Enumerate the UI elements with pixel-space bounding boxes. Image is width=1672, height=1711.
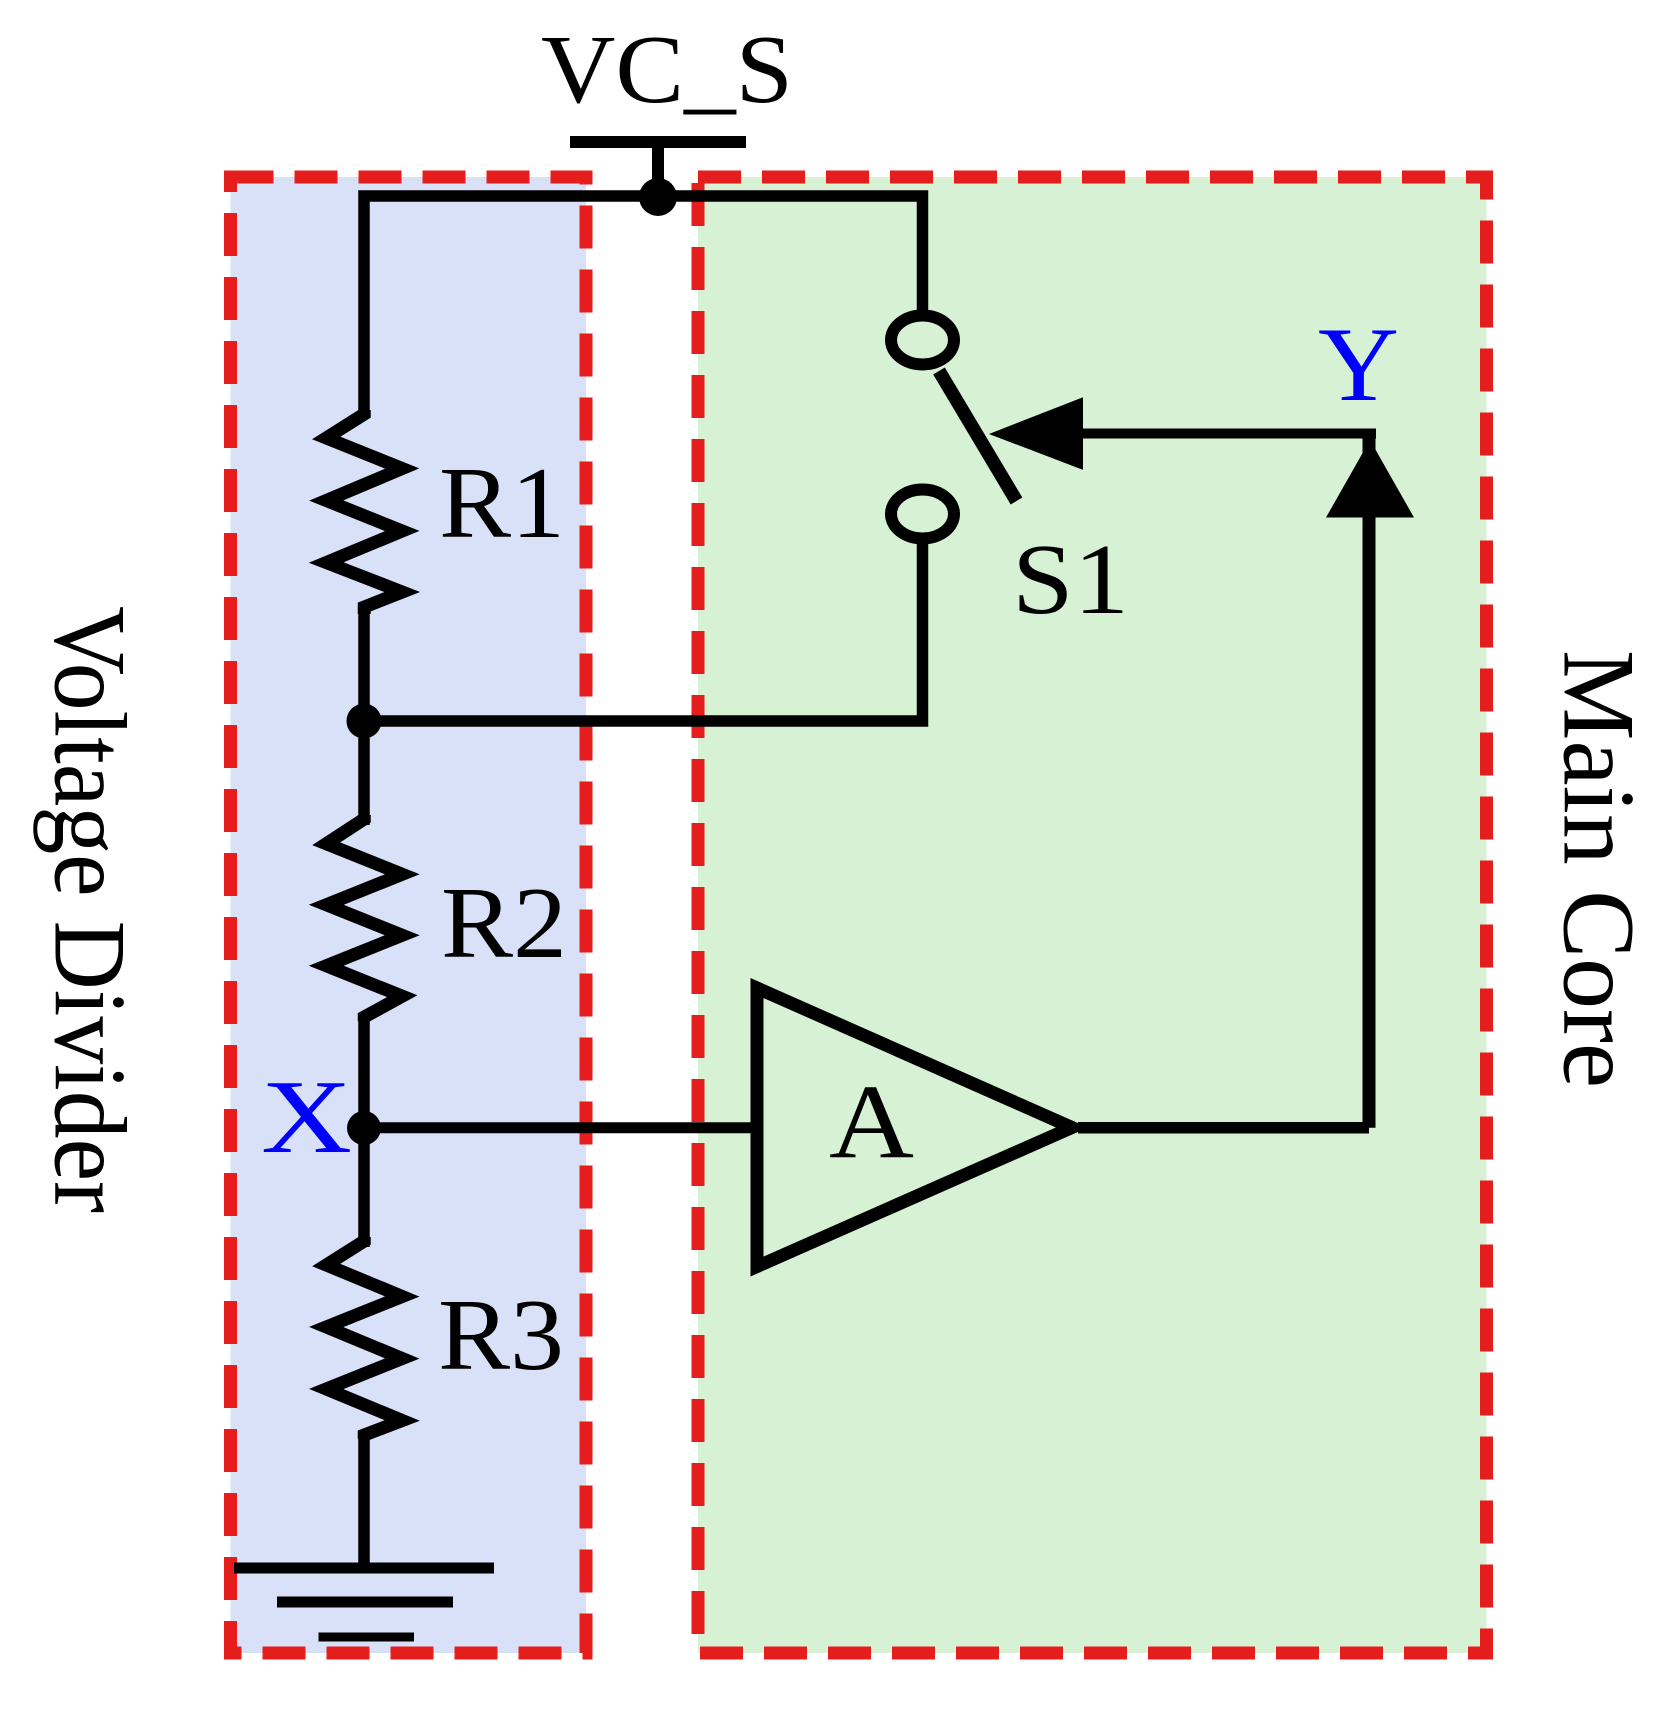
switch S1 arm	[939, 371, 1017, 501]
wire junction to switch bottom	[364, 540, 923, 721]
arrowhead to switch arm	[989, 397, 1083, 470]
node X dot	[347, 1111, 381, 1145]
power stem	[652, 142, 664, 197]
switch S1 bottom terminal	[891, 490, 954, 539]
svg-text:Main Core: Main Core	[1541, 650, 1655, 1088]
resistor R2	[326, 815, 402, 1021]
Voltage Divider region box (blue, dashed red)	[231, 177, 587, 1653]
svg-text:S1: S1	[1012, 523, 1129, 635]
svg-text:R3: R3	[438, 1279, 564, 1392]
arrowhead up to Y	[1326, 440, 1414, 518]
node VC_S junction dot	[639, 178, 677, 216]
svg-text:Y: Y	[1318, 306, 1399, 423]
wire amp output to corner	[1078, 1122, 1369, 1134]
resistor R1	[326, 410, 402, 614]
wire X to amplifier	[364, 1122, 760, 1133]
svg-text:Voltage Divider: Voltage Divider	[33, 606, 147, 1213]
node junction R1/R2 dot	[347, 704, 382, 739]
svg-text:A: A	[829, 1063, 914, 1180]
wire R2 to R3	[358, 1017, 370, 1247]
Main Core region box (green, dashed red)	[698, 177, 1487, 1653]
op-amp A triangle	[757, 988, 1072, 1267]
switch S1 top terminal	[891, 316, 954, 365]
svg-text:R1: R1	[439, 447, 565, 560]
wire arrow shaft to switch	[1020, 429, 1376, 439]
wire R3 to ground	[358, 1435, 370, 1568]
power supply VC_S bar	[570, 136, 746, 148]
svg-text:R2: R2	[441, 867, 567, 980]
resistor R3	[326, 1237, 402, 1439]
wire R1 to R2	[358, 607, 370, 825]
svg-text:X: X	[261, 1058, 352, 1175]
ground	[234, 1563, 494, 1574]
wire feedback vertical	[1363, 430, 1376, 1128]
svg-text:VC_S: VC_S	[541, 16, 793, 123]
wire top rail VC_S to switch	[364, 196, 923, 410]
